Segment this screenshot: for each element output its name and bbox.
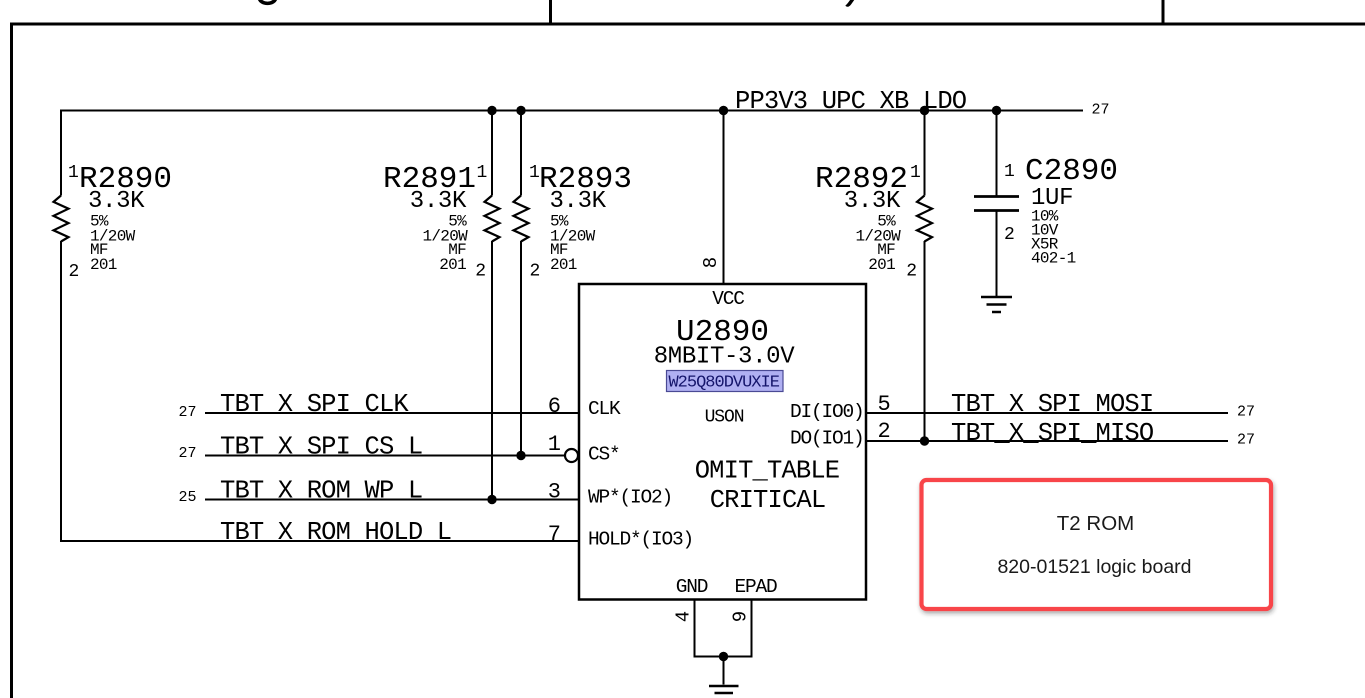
svg-text:8: 8 (700, 257, 722, 268)
svg-text:2: 2 (906, 262, 917, 282)
svg-text:9: 9 (730, 611, 752, 622)
svg-text:201: 201 (550, 256, 577, 274)
svg-text:4: 4 (673, 611, 695, 622)
svg-text:201: 201 (868, 256, 895, 274)
svg-text:W25Q80DVUXIE: W25Q80DVUXIE (668, 374, 779, 393)
svg-text:27: 27 (178, 404, 196, 421)
svg-text:2: 2 (530, 262, 541, 282)
svg-text:3.3K: 3.3K (550, 188, 607, 215)
svg-text:OMIT_TABLE: OMIT_TABLE (695, 457, 840, 486)
svg-text:7: 7 (548, 522, 561, 547)
svg-text:27: 27 (178, 445, 196, 462)
svg-text:3: 3 (548, 480, 561, 505)
svg-text:820-01521 logic board: 820-01521 logic board (997, 556, 1191, 578)
svg-text:1: 1 (1004, 162, 1015, 182)
svg-text:TBT_X_ROM_HOLD_L: TBT_X_ROM_HOLD_L (220, 518, 451, 547)
svg-text:1: 1 (477, 163, 488, 183)
svg-text:T2 ROM: T2 ROM (1057, 512, 1134, 535)
svg-text:3.3K: 3.3K (844, 188, 901, 215)
svg-text:DO(IO1): DO(IO1) (790, 428, 864, 450)
svg-text:CS*: CS* (588, 444, 620, 466)
svg-text:2: 2 (1004, 225, 1015, 245)
svg-text:HOLD*(IO3): HOLD*(IO3) (588, 529, 693, 551)
svg-text:8MBIT-3.0V: 8MBIT-3.0V (654, 344, 795, 371)
svg-text:201: 201 (90, 256, 117, 274)
svg-text:5: 5 (878, 392, 891, 417)
svg-text:3.3K: 3.3K (410, 188, 467, 215)
svg-text:201: 201 (439, 256, 466, 274)
svg-text:402-1: 402-1 (1031, 250, 1076, 268)
svg-text:1: 1 (548, 432, 561, 457)
svg-text:1: 1 (68, 163, 79, 183)
svg-text:CRITICAL: CRITICAL (710, 486, 826, 515)
svg-text:CLK: CLK (588, 398, 621, 420)
svg-text:27: 27 (1092, 102, 1110, 119)
svg-text:6: 6 (548, 394, 561, 419)
svg-text:TBT_X_SPI_MOSI: TBT_X_SPI_MOSI (951, 390, 1153, 419)
svg-text:WP*(IO2): WP*(IO2) (588, 487, 672, 509)
svg-text:C2890: C2890 (1025, 154, 1118, 189)
svg-text:3.3K: 3.3K (88, 188, 145, 215)
svg-text:TBT_X_SPI_CS_L: TBT_X_SPI_CS_L (220, 433, 422, 462)
svg-text:GND: GND (676, 576, 708, 598)
svg-text:27: 27 (1237, 404, 1255, 421)
svg-text:2: 2 (878, 419, 891, 444)
svg-text:EPAD: EPAD (734, 576, 777, 598)
svg-text:1: 1 (910, 163, 921, 183)
svg-text:2: 2 (69, 262, 80, 282)
svg-text:PP3V3_UPC_XB_LDO: PP3V3_UPC_XB_LDO (735, 87, 967, 116)
svg-text:VCC: VCC (712, 288, 744, 310)
svg-text:25: 25 (178, 489, 196, 506)
svg-text:27: 27 (1237, 432, 1255, 449)
svg-text:2: 2 (475, 262, 486, 282)
svg-text:USON: USON (705, 408, 744, 428)
svg-text:DI(IO0): DI(IO0) (790, 401, 864, 423)
svg-text:TBT_X_SPI_MISO: TBT_X_SPI_MISO (951, 419, 1154, 448)
svg-text:TBT_X_ROM_WP_L: TBT_X_ROM_WP_L (220, 477, 422, 506)
svg-text:TBT_X_SPI_CLK: TBT_X_SPI_CLK (220, 390, 409, 419)
